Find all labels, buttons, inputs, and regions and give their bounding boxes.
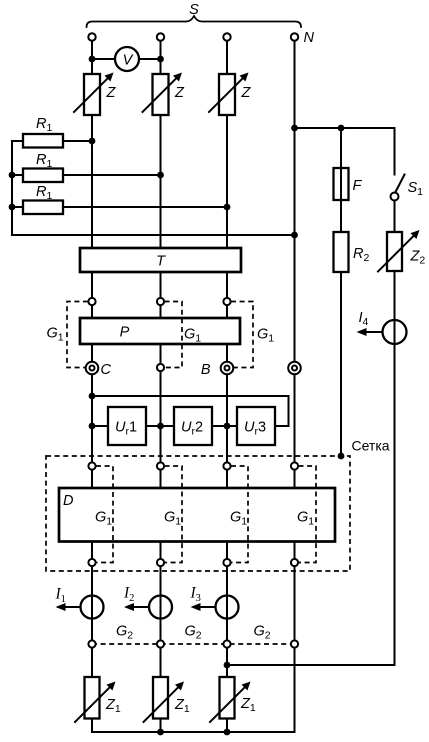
pin circle L3 above P (223, 298, 230, 305)
resistor R2 (334, 232, 349, 272)
wire branch L4 to right column (295, 127, 395, 129)
node Ur row L3 (224, 423, 231, 430)
svg-text:Сетка: Сетка (352, 438, 390, 454)
wire fuse branch L5 (340, 128, 342, 456)
node rail-R1bot (9, 204, 16, 211)
voltmeter V (115, 47, 139, 71)
node rail-R1mid (9, 172, 16, 179)
terminal L4 (288, 362, 301, 375)
current transformer I1 (81, 596, 104, 619)
pin circle L1 below D (88, 559, 95, 566)
pin circle L2 above D (157, 462, 164, 469)
wire phase line L2 (160, 40, 162, 732)
svg-text:V: V (123, 53, 134, 69)
resistor R1 bottom (23, 201, 63, 215)
dashed grid boundary box (46, 456, 350, 571)
wire R1 bottom to L3 (12, 206, 227, 208)
voltage relay Ur2 (174, 407, 212, 445)
node R1-L1 (89, 138, 96, 145)
current transformer I3 (216, 596, 239, 619)
switch S1 (391, 193, 399, 201)
linkage circle L3 (223, 640, 230, 647)
linkage circle L2 (157, 640, 164, 647)
pin circle L2 below P (157, 364, 164, 371)
terminal line3 (223, 33, 230, 40)
resistor R1 top (23, 134, 63, 148)
load Z1 phase1 (85, 677, 100, 719)
node R1-L2 (157, 172, 164, 179)
node L5 tap (338, 125, 345, 132)
dashed bracket G1 phase1 at P (67, 302, 88, 368)
pin circle L3 above D (223, 462, 230, 469)
wire switch branch L6 upper (394, 128, 396, 175)
node R1-L3 (224, 204, 231, 211)
svg-text:B: B (201, 362, 211, 378)
pin circle L2 above P (157, 298, 164, 305)
device P (80, 318, 240, 344)
wire phase line L1 (91, 40, 93, 732)
terminal B (221, 362, 234, 375)
node Ur wrap at L1 (89, 393, 96, 400)
svg-text:C: C (101, 362, 112, 378)
wire R1 middle to L2 (12, 174, 161, 176)
wire Ur1-Ur2 link (146, 425, 174, 427)
wire Ur2-Ur3 link (212, 425, 237, 427)
wire voltmeter branch (92, 58, 161, 60)
node L4 bottom R1 bus (291, 232, 298, 239)
impedance Z2 (387, 232, 402, 271)
dashed trip linkage (92, 643, 295, 645)
svg-text:T: T (156, 254, 166, 270)
svg-text:Z: Z (106, 85, 117, 101)
resistor R1 middle (23, 169, 63, 183)
fuse F (334, 168, 349, 200)
wire Ur1 left lead (92, 425, 108, 427)
linkage circle L1 (88, 640, 95, 647)
wire return to L3 (227, 664, 395, 666)
node Ur row L2 (157, 423, 164, 430)
current transformer I4 (383, 320, 407, 344)
node grid connection (338, 453, 345, 460)
brace S (supply bus annotation) (87, 16, 302, 27)
svg-text:N: N (304, 30, 315, 46)
voltage relay Ur3 (237, 407, 275, 445)
pin circle L2 below D (157, 559, 164, 566)
wire phase line L3 (226, 40, 228, 732)
wire bottom bus (92, 731, 295, 733)
svg-text:D: D (63, 493, 73, 509)
pin circle L4 below D (291, 559, 298, 566)
pin circle L4 above D (291, 462, 298, 469)
wire Ur wrap top (92, 396, 289, 426)
linkage circle L4 (291, 640, 298, 647)
dashed bracket G1 phase3 at P (231, 302, 253, 368)
wire switch branch L6 lower (394, 201, 396, 666)
impedance Z phase1 (84, 74, 100, 115)
node V-L1 (89, 56, 96, 63)
dashed bracket G1 phase3 at D (231, 466, 248, 563)
terminal line1 (88, 33, 95, 40)
dashed bracket G1 phase4 at D (299, 466, 317, 563)
load Z1 phase2 (153, 677, 168, 719)
dashed bracket G1 phase2 at P (165, 302, 183, 368)
node bus L3 (224, 729, 231, 736)
svg-text:F: F (353, 178, 363, 194)
terminal line2 (157, 33, 164, 40)
svg-text:Z: Z (174, 85, 185, 101)
dashed bracket G1 phase2 at D (165, 466, 183, 563)
voltage relay Ur1 (108, 407, 146, 445)
wire R1 top to L1 (12, 140, 92, 142)
node return wire at L3 (224, 662, 231, 669)
impedance Z phase3 (219, 74, 235, 115)
current transformer I2 (149, 596, 172, 619)
node L4 branch (291, 125, 298, 132)
terminal C (86, 362, 99, 375)
node Ur row L1 (89, 423, 96, 430)
pin circle L3 below D (223, 559, 230, 566)
dashed bracket G1 phase1 at D (96, 466, 113, 563)
node bus L2 (157, 729, 164, 736)
wire left rail (11, 141, 13, 235)
impedance Z phase2 (153, 74, 169, 115)
transformer T (80, 248, 241, 272)
load Z1 phase3 (220, 677, 235, 719)
pin circle L1 above D (88, 462, 95, 469)
svg-text:S: S (189, 2, 199, 18)
node V-L2 (157, 56, 164, 63)
svg-text:P: P (120, 325, 130, 341)
svg-text:Z: Z (241, 85, 252, 101)
pin circle L1 above P (88, 298, 95, 305)
wire neutral line L4 (294, 40, 296, 732)
device D (59, 488, 335, 542)
terminal N line4 (291, 33, 298, 40)
wire bottom R1 bus to L4 (12, 234, 295, 236)
